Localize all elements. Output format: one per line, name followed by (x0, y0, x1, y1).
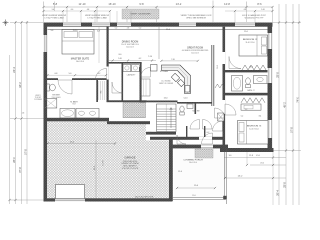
dimension lines: left margin verticals (10, 21, 29, 204)
wall: master bath north (46, 78, 107, 80)
svg-text:12-8: 12-8 (249, 155, 253, 157)
front stoop hatch (195, 149, 213, 158)
mud bench base (123, 103, 146, 118)
dimension line: top tier2 right (225, 9, 274, 12)
svg-text:8'-6: 8'-6 (257, 2, 262, 6)
wall: bedroom wing west (223, 27, 226, 149)
room label: GARAGE (121, 156, 139, 171)
svg-text:2-8: 2-8 (22, 113, 25, 115)
fixture: washer dryer (123, 65, 139, 72)
dimension line: top tier2 left (42, 9, 111, 12)
svg-text:3-0: 3-0 (229, 155, 232, 157)
dimension texts: interior small (51, 29, 253, 157)
dimension line: tier2 extension x=54.5 (54, 2, 56, 12)
svg-text:SLOPE: SLOPE (103, 159, 105, 166)
closet shelves: WIC (99, 81, 105, 100)
room label: MASTER SUITE (71, 57, 90, 63)
wall: porch north (169, 145, 228, 149)
svg-text:5-4: 5-4 (149, 132, 152, 134)
room label: BEDROOM 2 (243, 39, 258, 44)
door arc: entry hall (215, 108, 225, 118)
svg-text:57'-8: 57'-8 (290, 127, 293, 133)
pantry shelves (141, 79, 150, 96)
wall: garage north step (107, 121, 150, 124)
porch post SE (223, 148, 226, 151)
window W3 in top wall (117, 23, 131, 27)
svg-text:6-2: 6-2 (139, 58, 142, 60)
svg-text:16-0 X 8-0 OH DOOR: 16-0 X 8-0 OH DOOR (135, 197, 154, 199)
dimension texts: under dining wall (115, 28, 142, 30)
window in left wall master (44, 35, 48, 52)
room label: GREAT ROOM (182, 47, 209, 55)
wall: right exterior (268, 23, 273, 153)
svg-text:5-4: 5-4 (51, 30, 54, 32)
svg-text:26'-4: 26'-4 (276, 190, 279, 196)
extension lines: below bed3 wall (224, 152, 274, 205)
svg-text:10-0 CLG: 10-0 CLG (126, 46, 134, 48)
svg-text:7-2: 7-2 (245, 109, 248, 111)
porch edge lines (173, 149, 227, 205)
svg-text:12-0: 12-0 (192, 195, 195, 197)
extension line: left wall top (10, 22, 44, 24)
dimension texts: top tier (53, 2, 262, 6)
wall: bed3 south exterior (220, 148, 274, 152)
wall: master wing south (garage north) (44, 118, 110, 122)
svg-text:24'-4: 24'-4 (13, 67, 16, 73)
svg-text:5-10: 5-10 (184, 98, 188, 100)
wall: top exterior (44, 23, 273, 27)
svg-text:10-0 CLG: 10-0 CLG (191, 52, 199, 54)
svg-text:5.7 SQ FT MIN CLEAR: 5.7 SQ FT MIN CLEAR (87, 17, 107, 20)
extension line: left wall bottom (10, 199, 44, 201)
svg-text:28'-0: 28'-0 (13, 157, 16, 163)
extension lines: window edges (63, 11, 255, 23)
fixture: toilet master (47, 84, 56, 91)
svg-text:45'-2: 45'-2 (283, 102, 286, 108)
dimension ticks: left margin at wall line (8, 117, 22, 201)
note block: hatched tub note base (122, 9, 159, 19)
note texts: window notes top (42, 14, 212, 19)
svg-text:BEDROOM #2: BEDROOM #2 (243, 39, 258, 41)
svg-text:18'-2: 18'-2 (19, 82, 22, 88)
note block: hatched tub note (122, 9, 159, 19)
door opening in wing wall (223, 100, 226, 114)
svg-text:5-0: 5-0 (115, 28, 118, 30)
door arc: pantry (141, 68, 151, 78)
wall: hall rooms (177, 102, 212, 114)
svg-text:GARAGE: GARAGE (124, 156, 135, 160)
svg-text:5.7 SQ FT MIN CLEAR: 5.7 SQ FT MIN CLEAR (44, 17, 64, 20)
svg-text:7-10: 7-10 (148, 56, 152, 58)
survey cross marker (3, 20, 9, 27)
svg-text:12-0 X 11-6: 12-0 X 11-6 (249, 128, 258, 130)
dimension line: top overall extension at x=246 (246, 2, 248, 8)
wall: laundry east (140, 62, 142, 102)
wall: hall south of kitchen (140, 101, 178, 103)
svg-text:12-0: 12-0 (178, 171, 182, 173)
door opening: master entry (107, 67, 109, 80)
svg-text:37'-8: 37'-8 (19, 167, 22, 173)
note text: shower (51, 95, 60, 99)
kitchen note text (159, 71, 174, 85)
extension line: right wall bottom (273, 149, 301, 151)
linen closet X (218, 113, 225, 121)
svg-text:19-8: 19-8 (217, 65, 219, 69)
wall: garage east (169, 138, 173, 202)
svg-text:BATH #2: BATH #2 (247, 89, 254, 92)
fixture: toilet bath2 (246, 78, 251, 88)
appliance: range right (185, 86, 190, 93)
counter: kitchen L with 45 corner (162, 65, 191, 94)
garage door opening (55, 198, 85, 201)
svg-text:6-0: 6-0 (71, 9, 74, 11)
room label: DINING ROOM (121, 41, 139, 49)
svg-text:9'-8: 9'-8 (139, 2, 144, 6)
svg-text:16'-10: 16'-10 (108, 2, 116, 6)
dimension texts: left margin rotated (13, 67, 43, 173)
svg-text:VERIFY W OWNER: VERIFY W OWNER (159, 83, 174, 85)
door arc: bed2 (229, 57, 241, 69)
door opening in wing wall2 (223, 52, 226, 64)
wall: bed2 south / bath north (225, 70, 268, 72)
fixture: shower (45, 99, 57, 109)
extension line: left wall mid (10, 118, 46, 120)
svg-text:6-8: 6-8 (244, 9, 247, 11)
svg-text:10-0 CLG: 10-0 CLG (76, 61, 85, 63)
svg-text:MASTER SUITE: MASTER SUITE (71, 57, 90, 60)
svg-text:8-0: 8-0 (119, 54, 122, 56)
note text: post note right (242, 14, 266, 19)
svg-text:6-8: 6-8 (55, 73, 58, 75)
closet doors: linen bifold (215, 84, 225, 88)
svg-text:MUD RM: MUD RM (193, 111, 201, 113)
appliance: sink tilted (177, 79, 184, 86)
bed: bedroom2 (239, 35, 268, 56)
door opening: front door (201, 144, 213, 148)
svg-text:OPNG. SEE INTERIOR: OPNG. SEE INTERIOR (186, 18, 207, 20)
svg-text:7-10: 7-10 (171, 59, 175, 61)
window W4 in top wall (179, 23, 196, 27)
window in right wall bed2 (268, 33, 273, 49)
svg-text:5-0: 5-0 (139, 28, 142, 30)
wall: master suite east (107, 27, 109, 102)
dimension line: master interior vertical (98, 27, 100, 63)
wall: mud closet stub (186, 126, 205, 137)
fixture: powder sink (187, 104, 193, 109)
bed: bedroom3 (238, 121, 269, 145)
svg-text:LAUNDRY: LAUNDRY (127, 74, 136, 77)
svg-text:14'-2: 14'-2 (176, 2, 182, 6)
svg-text:5-10: 5-10 (118, 58, 122, 60)
wall: laundry west (122, 62, 124, 101)
svg-text:5'-8: 5'-8 (53, 2, 58, 6)
svg-text:10-0 CLG: 10-0 CLG (189, 162, 197, 164)
svg-text:4-8: 4-8 (87, 9, 90, 11)
svg-text:5-10: 5-10 (261, 9, 264, 11)
svg-text:4-2: 4-2 (98, 73, 101, 75)
room label: MASTER BATH (70, 100, 78, 105)
door arc: mud pair L (190, 120, 200, 130)
svg-text:5-0: 5-0 (69, 73, 72, 75)
cased opening line dining-great (158, 27, 160, 59)
room label: COVERED PORCH (183, 159, 203, 164)
svg-text:4 SLOPE TO DOOR: 4 SLOPE TO DOOR (122, 168, 139, 170)
svg-text:28'-8: 28'-8 (276, 72, 279, 78)
svg-text:11-10: 11-10 (73, 30, 78, 32)
svg-text:5-2: 5-2 (241, 115, 244, 117)
closet doors: bed2 bifold (242, 65, 266, 70)
extension line: right wall top (273, 21, 302, 23)
wall: bottom exterior garage (44, 198, 173, 201)
door arc: bed3 (225, 104, 236, 115)
svg-text:8-4: 8-4 (259, 115, 262, 117)
porch post bottom (223, 196, 226, 199)
svg-text:74'-0: 74'-0 (296, 97, 299, 103)
door arc: hall to mud (112, 82, 123, 93)
dimension line: top overall extension at x=213 (212, 1, 214, 8)
counter inner guide (162, 68, 188, 94)
wall: pantry west (140, 67, 142, 102)
porch floor (174, 149, 224, 198)
door arc: master entry (96, 69, 107, 80)
door arc: bed3 hall (213, 121, 223, 131)
door arc: mud2 (177, 135, 186, 144)
svg-text:2-8: 2-8 (127, 28, 130, 30)
garage floor hatch (48, 121, 170, 198)
svg-text:TILE: TILE (72, 104, 75, 106)
kitchen dim line (160, 59, 199, 62)
svg-text:4-8: 4-8 (97, 31, 100, 33)
dim texts bed3 upper (241, 115, 262, 117)
svg-text:13-0: 13-0 (164, 98, 168, 100)
dimension texts: right margin rotated (276, 72, 299, 196)
fixture: master vanity (76, 109, 99, 119)
svg-text:VERIFY TUB SHOWER: VERIFY TUB SHOWER (130, 14, 151, 16)
fixture: fridge (151, 65, 158, 72)
wall: WIC west (96, 80, 98, 102)
door arc: mud pair R (203, 120, 213, 130)
svg-text:28'-8: 28'-8 (283, 182, 286, 188)
svg-text:21-4: 21-4 (166, 29, 170, 31)
dimension lines: right margin verticals (279, 4, 299, 205)
svg-text:VERIFY: VERIFY (35, 95, 40, 97)
svg-text:13-2: 13-2 (249, 67, 253, 69)
svg-text:11-6 X 11-0: 11-6 X 11-0 (245, 42, 254, 44)
window in right wall bath2 (268, 68, 273, 83)
door arc: front door (202, 133, 213, 144)
svg-text:SHOWER: SHOWER (52, 95, 60, 97)
mud bench hatch (123, 103, 146, 118)
window W2 in top wall (92, 23, 110, 27)
door arc: master bath door (58, 80, 72, 94)
front stoop base (195, 149, 213, 158)
wall: great room east (212, 45, 214, 106)
svg-text:COVERED PORCH: COVERED PORCH (183, 159, 203, 161)
window in right wall bed3 (268, 120, 273, 138)
window W5 in top wall (235, 23, 255, 27)
room label: BEDROOM 3 (247, 126, 262, 131)
dimension lines: lower right horizontals (222, 155, 286, 179)
svg-text:W 24X24X10 FTG TYP: W 24X24X10 FTG TYP (245, 18, 264, 20)
svg-text:W OWNER: W OWNER (34, 99, 42, 101)
dresser bed3 (241, 104, 261, 110)
fixture: powder toilet (180, 106, 184, 115)
garage vertical dim (94, 140, 96, 198)
appliance: dishwasher tilted (171, 73, 179, 81)
dimension line: master bath interior (46, 74, 107, 76)
svg-text:5-4: 5-4 (52, 9, 55, 11)
window W1 in top wall (63, 23, 81, 27)
svg-text:11-0: 11-0 (244, 31, 248, 33)
porch dim line (176, 187, 216, 189)
dimension line: corner extension x=43.5 (43, 2, 45, 8)
wall: below stairs (146, 132, 176, 135)
wall: left exterior (44, 23, 48, 202)
svg-text:11'-10: 11'-10 (79, 2, 86, 6)
closet doors: bed3 bifold (241, 98, 265, 103)
svg-text:6-2: 6-2 (207, 132, 210, 134)
door opening in mud south wall (199, 137, 212, 140)
fixture: vanity bath2 (254, 76, 268, 84)
wall: mud north (107, 100, 147, 102)
svg-text:TILE SET: TILE SET (35, 97, 42, 99)
wall: top inner face line (48, 28, 269, 30)
svg-text:12'-8: 12'-8 (224, 2, 230, 6)
garage interior dim line (46, 141, 116, 144)
svg-text:BEDROOM #3: BEDROOM #3 (247, 126, 262, 128)
svg-text:M. BATH: M. BATH (70, 100, 78, 103)
dimension line: top tier with ticks (42, 6, 273, 22)
svg-text:14'-2: 14'-2 (238, 176, 244, 178)
fixture: tub master (60, 109, 75, 119)
svg-text:57'-8: 57'-8 (24, 149, 27, 155)
svg-text:KITCHEN: KITCHEN (160, 71, 169, 73)
fixture: tub bath2 (232, 76, 243, 92)
wall: laundry north (109, 62, 142, 64)
stairs (157, 104, 177, 132)
garage door slab (56, 185, 85, 199)
bed: master (62, 30, 94, 55)
dimension line: dining interior (109, 58, 156, 61)
svg-text:DINING ROOM: DINING ROOM (122, 41, 138, 44)
wall: mud south (150, 137, 225, 140)
wall: bath south / bed3 north (225, 93, 268, 96)
